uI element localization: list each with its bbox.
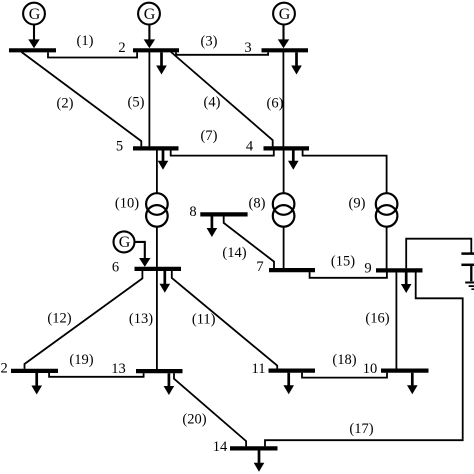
svg-text:(15): (15)	[331, 254, 355, 270]
svg-text:(5): (5)	[128, 94, 145, 110]
svg-text:(1): (1)	[77, 33, 94, 49]
svg-text:G: G	[119, 234, 131, 251]
svg-text:6: 6	[112, 260, 119, 276]
svg-text:2: 2	[118, 40, 125, 56]
svg-text:(9): (9)	[349, 195, 366, 211]
svg-text:10: 10	[363, 361, 378, 377]
svg-text:G: G	[279, 6, 291, 23]
svg-text:(13): (13)	[129, 311, 153, 327]
svg-text:12: 12	[0, 360, 8, 376]
svg-text:(6): (6)	[267, 95, 284, 111]
svg-text:(8): (8)	[249, 195, 266, 211]
svg-text:(11): (11)	[192, 312, 216, 328]
svg-text:(3): (3)	[201, 33, 218, 49]
svg-text:3: 3	[244, 40, 251, 56]
svg-text:(7): (7)	[201, 128, 218, 144]
svg-text:11: 11	[252, 361, 266, 377]
svg-text:13: 13	[111, 361, 126, 377]
svg-text:14: 14	[213, 439, 228, 455]
svg-text:(18): (18)	[332, 352, 356, 368]
svg-text:5: 5	[116, 139, 123, 155]
svg-text:(17): (17)	[349, 421, 373, 437]
svg-text:G: G	[29, 6, 41, 23]
svg-text:G: G	[144, 6, 156, 23]
svg-text:(16): (16)	[365, 310, 389, 326]
svg-text:(19): (19)	[69, 352, 93, 368]
svg-text:(2): (2)	[57, 96, 74, 112]
svg-text:8: 8	[189, 204, 196, 220]
svg-text:9: 9	[364, 261, 371, 277]
svg-text:(14): (14)	[222, 245, 246, 261]
svg-text:(12): (12)	[47, 310, 71, 326]
svg-text:(4): (4)	[204, 95, 221, 111]
svg-text:4: 4	[246, 139, 254, 155]
svg-text:7: 7	[256, 259, 263, 275]
svg-text:(10): (10)	[115, 195, 139, 211]
svg-text:(20): (20)	[182, 411, 206, 427]
